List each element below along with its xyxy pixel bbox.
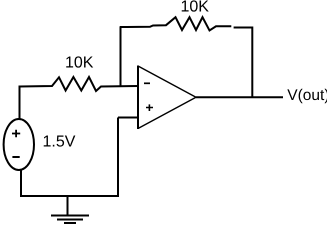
voltage source V1 plus sign (12, 130, 20, 138)
op-amp U1 left edge (137, 66, 139, 130)
ground symbol bars (51, 216, 89, 224)
wire feedback left vertical (120, 27, 122, 87)
svg-text:V(out): V(out) (287, 87, 327, 104)
voltage source V1 ellipse (4, 119, 34, 170)
op-amp U1 inverting input minus sign (144, 82, 150, 84)
wire op-amp output to V(out) (196, 96, 283, 98)
wire source top vertical (19, 86, 21, 120)
op-amp U1 triangle diagonals (138, 66, 196, 129)
svg-text:10K: 10K (181, 0, 210, 16)
svg-text:1.5V: 1.5V (43, 134, 76, 151)
wire non-inverting input horizontal (118, 117, 139, 119)
wire feedback right vertical (251, 27, 253, 98)
wire ground stub (67, 196, 69, 216)
op-amp U1 non-inverting input plus sign (146, 104, 153, 111)
resistor R1 10K input zigzag (20, 77, 140, 91)
wire non-inverting input vertical drop (117, 118, 119, 197)
wire source bottom vertical (20, 170, 22, 196)
resistor R2 10K feedback zigzag (120, 17, 253, 30)
voltage source V1 minus sign (12, 156, 19, 158)
wire bottom horizontal (20, 195, 119, 197)
svg-text:10K: 10K (65, 55, 94, 72)
